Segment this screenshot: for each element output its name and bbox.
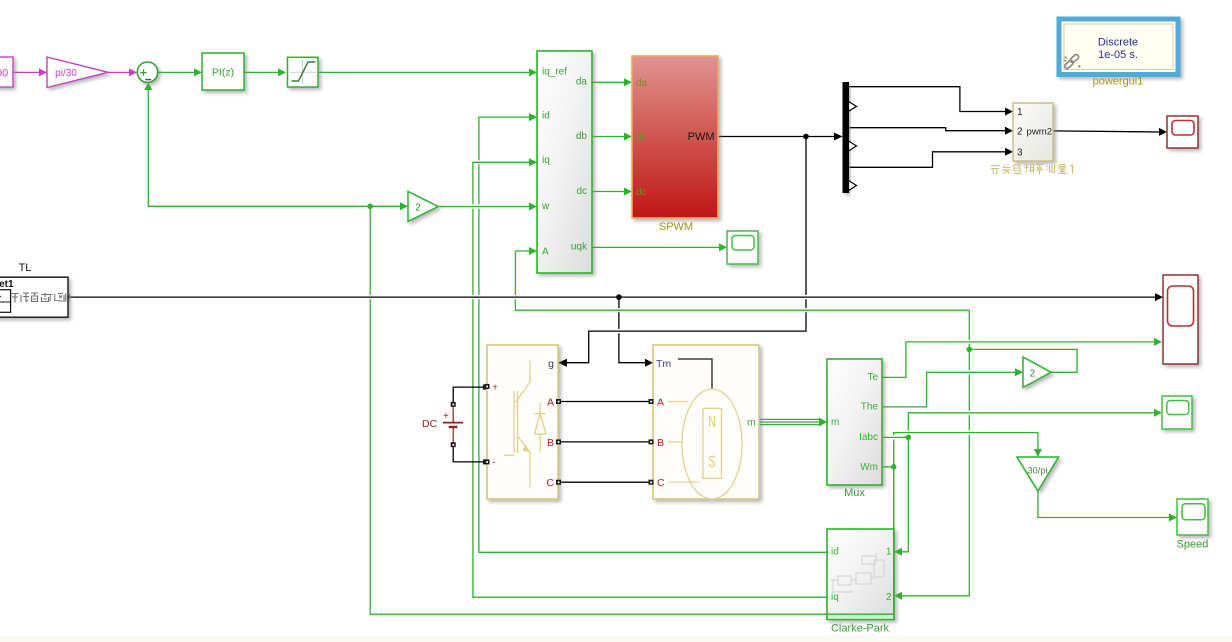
node w junction [367, 204, 373, 210]
demux bar [843, 82, 857, 193]
svg-text:pi/30: pi/30 [55, 68, 77, 79]
wire w junction to gain2-left [370, 205, 401, 207]
wire iq feedback (Clarke-Park iq up to controller iq) [473, 162, 827, 597]
wire uqk to scope [592, 246, 720, 248]
wire id feedback (Clarke-Park id up to controller id) [479, 117, 827, 552]
arrow into id [529, 113, 537, 121]
wire saturation to controller iq_ref [319, 71, 530, 73]
arrow into gain2-right [1015, 368, 1023, 376]
arrow into Mux m [819, 418, 827, 427]
wire PI(z) to saturation [244, 71, 279, 73]
wire 30/pi to Speed scope [1038, 491, 1171, 518]
arrow into pwm2 1 [1005, 108, 1013, 116]
svg-text:2: 2 [1017, 127, 1023, 138]
svg-text:C: C [546, 477, 554, 489]
svg-text:1e-05 s.: 1e-05 s. [1098, 49, 1138, 61]
wire The to gain2-right [882, 372, 1018, 407]
scope pwm (red) [1167, 116, 1198, 148]
arrow into SPWM dc [624, 188, 632, 196]
svg-text:Clarke-Park: Clarke-Park [831, 623, 890, 635]
svg-text:-: - [492, 457, 496, 469]
svg-text:m: m [831, 417, 839, 428]
svg-text:2: 2 [886, 592, 892, 603]
arrow into 30/pi [1034, 449, 1042, 457]
svg-text:S: S [708, 451, 715, 470]
arrow into big scope (Te) [1154, 338, 1162, 346]
svg-text:dc: dc [576, 186, 587, 197]
svg-text:DC: DC [422, 418, 438, 430]
svg-text:m: m [747, 417, 756, 429]
svg-text:PI(z): PI(z) [212, 67, 234, 79]
svg-text:1: 1 [1017, 107, 1023, 118]
wire inverter B to motor B [561, 441, 649, 443]
ports of motor [649, 399, 654, 404]
scope2 (big red, TL + Te) [1163, 275, 1198, 364]
IGBT + diode icon [504, 361, 546, 487]
arrow into inverter g [558, 359, 567, 367]
TL signal builder block [0, 262, 70, 317]
svg-text:Discrete: Discrete [1098, 37, 1138, 49]
wire DC- to inverter [453, 447, 484, 462]
svg-text:da: da [576, 77, 588, 88]
node Wm junction [891, 464, 897, 470]
arrow into pwm scope [1159, 128, 1167, 136]
wire TL to big scope [68, 295, 1158, 299]
pwm2 measurement block [1013, 103, 1053, 161]
arrow into pwm2 2 [1005, 127, 1013, 135]
svg-text:db: db [636, 132, 648, 143]
wire gain pi/30 to sum [108, 71, 130, 73]
powergui1 block [1059, 19, 1178, 88]
arrow into w [529, 203, 537, 211]
arrow into PI(z) [194, 68, 202, 76]
svg-text:A: A [547, 397, 554, 409]
node theta junction [967, 347, 973, 353]
label 干扰负载TL变化 pseudo-glyphs [12, 292, 71, 304]
svg-text:TL: TL [19, 262, 32, 274]
svg-text:db: db [576, 131, 588, 142]
wire da [592, 81, 625, 83]
sum junction [137, 62, 157, 82]
arrow into Clarke-Park 2 [894, 592, 902, 600]
svg-text:uqk: uqk [571, 242, 588, 253]
wire Iabc port to junction [882, 435, 908, 439]
inverter block [485, 345, 562, 499]
label 开关管频率测量1 (vector pseudo-glyphs) [991, 165, 1073, 175]
svg-text:SPWM: SPWM [659, 221, 693, 233]
svg-text:2: 2 [1030, 368, 1036, 379]
arrow into sum [129, 68, 137, 76]
gain 2 (left) [408, 192, 438, 222]
svg-text:B: B [657, 437, 664, 449]
svg-text:1500: 1500 [0, 68, 8, 80]
scope3 (Iabc, green) [1162, 396, 1192, 429]
arrow into iq [529, 158, 537, 166]
scope Speed [1177, 499, 1209, 551]
svg-text:Speed: Speed [1177, 539, 1209, 551]
Clarke-Park block [827, 529, 894, 635]
wire Wm return over Clarke-Park edge [827, 467, 894, 614]
svg-text:B: B [547, 437, 554, 449]
wire constant to gain pi/30 [13, 71, 40, 73]
wire theta vertical + gain2 output (to A line and Clarke-Park 2) [896, 310, 1077, 596]
wire inverter A to motor A [561, 401, 649, 403]
wire Te to big scope lower input [882, 342, 1156, 378]
svg-text:iq_ref: iq_ref [542, 67, 567, 78]
svg-text:Iabc: Iabc [859, 432, 878, 443]
svg-text:1: 1 [886, 547, 892, 558]
svg-text:The: The [861, 402, 879, 413]
svg-text:Mux: Mux [844, 487, 865, 499]
arrow into gain pi/30 [39, 68, 47, 76]
svg-text:+: + [443, 411, 449, 422]
svg-text:dc: dc [636, 187, 647, 198]
wire DC+ to inverter [453, 387, 484, 402]
wire A angle (junction to controller A input) [515, 251, 969, 310]
gain 2 (right) [1023, 357, 1051, 388]
wire demux out2 to pwm2 in2 [849, 128, 1006, 131]
node PWM junction [803, 134, 809, 140]
svg-text:A: A [657, 397, 664, 409]
svg-text:powergui1: powergui1 [1093, 76, 1144, 88]
arrow into uqk scope [719, 243, 727, 251]
wire Iabc branches to green scope and Clarke-Park 1 [896, 413, 1156, 552]
svg-text:Wm: Wm [860, 462, 878, 473]
arrow into gain2-left [400, 202, 408, 210]
svg-text:g: g [548, 358, 554, 370]
arrow into pwm2 3 [1005, 148, 1013, 156]
Mux bus selector block [827, 359, 882, 499]
svg-text:TL: TL [47, 292, 59, 304]
svg-text:w: w [541, 201, 550, 212]
svg-text:A: A [542, 246, 549, 257]
svg-text:2: 2 [415, 203, 421, 214]
node TL junction [616, 294, 622, 300]
arrow into iq_ref [529, 68, 537, 76]
bottom window strip [0, 635, 1232, 642]
DC source [422, 385, 488, 465]
svg-text:id: id [542, 110, 550, 121]
PI(z) controller block [202, 53, 244, 90]
arrow into big scope (TL) [1155, 293, 1163, 301]
svg-text:da: da [636, 78, 648, 89]
arrow into motor Tm [645, 359, 653, 367]
arrow into sum minus [144, 83, 152, 91]
motor internal icon [678, 359, 712, 389]
arrow into SPWM da [624, 78, 632, 86]
wire db [592, 136, 625, 138]
svg-text:PWM: PWM [688, 131, 715, 143]
controller subsystem block [537, 51, 592, 273]
svg-text:N: N [708, 411, 716, 430]
svg-text:30/pi: 30/pi [1027, 466, 1048, 477]
gain pi/30 [47, 57, 108, 88]
svg-text:3: 3 [1017, 148, 1023, 159]
wire demux out3 to pwm2 in3 [849, 152, 1006, 168]
constant 1500 (cut off at left) [0, 57, 13, 87]
svg-text:id: id [831, 547, 839, 558]
wire gain2-left to controller w [438, 204, 530, 208]
motor PMSM block [649, 345, 760, 499]
wire m to Mux (triple line) [759, 419, 820, 424]
ports of inverter [485, 384, 490, 389]
node Iabc junction [906, 435, 912, 441]
svg-text:pwm2: pwm2 [1027, 127, 1053, 138]
scope uqk [727, 231, 758, 264]
arrow into Clarke-Park 1 [894, 548, 902, 556]
arrow into saturation [278, 68, 286, 76]
wire demux out1 to pwm2 in1 [849, 87, 1006, 112]
svg-text:Te: Te [867, 372, 878, 383]
wire pwm2 to red scope [1053, 131, 1160, 132]
svg-text:Tm: Tm [656, 358, 671, 370]
arrow into SPWM db [624, 133, 632, 141]
wire inverter C to motor C [561, 481, 649, 483]
svg-text:+: + [492, 382, 498, 394]
arrow into Speed scope [1169, 514, 1177, 522]
wire speed feedback: junction left and up into sum minus [148, 84, 370, 206]
arrow into A [529, 247, 537, 255]
svg-text:iq: iq [542, 155, 550, 166]
wire dc [592, 191, 625, 193]
svg-text:C: C [657, 477, 665, 489]
wire Wm to 30/pi gain [882, 433, 1038, 467]
wire sum to PI(z) [158, 71, 195, 73]
SPWM subsystem block [632, 56, 718, 233]
wire Wm return (down, left along bottom, up to w junction) [370, 206, 894, 614]
saturation block [288, 57, 319, 87]
arrow into demux [834, 133, 843, 141]
gain 30/pi [1017, 457, 1059, 491]
svg-text:net1: net1 [0, 279, 14, 290]
arrow into green scope (Iabc) [1154, 409, 1162, 417]
wire PWM to demux with branch down to inverter g [560, 137, 838, 363]
wire TL junction branch down to Tm [619, 297, 649, 363]
svg-text:iq: iq [831, 592, 839, 603]
